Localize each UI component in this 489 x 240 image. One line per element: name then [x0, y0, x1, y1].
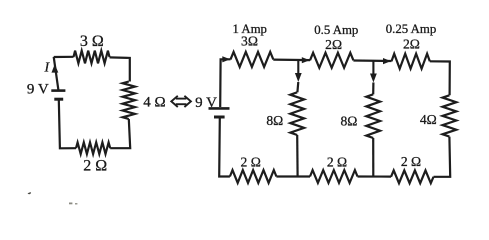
- svg-text:2 Ω: 2 Ω: [241, 154, 261, 169]
- resistor 2-ohm (left circuit, bottom): [76, 142, 110, 154]
- current arrow 0.5 Amp (right-pointing): [302, 57, 310, 63]
- branch wire node A top: [296, 82, 299, 92]
- current arrow 0.25 Amp (right-pointing): [383, 58, 391, 64]
- svg-text:9 V: 9 V: [27, 81, 49, 97]
- svg-text:I: I: [43, 61, 50, 76]
- resistor 2-ohm (right circuit, bottom row 2): [310, 170, 358, 183]
- wire top-right corner (left circuit): [110, 57, 130, 81]
- battery cell 9V (right circuit): [209, 107, 230, 110]
- svg-text:3Ω: 3Ω: [241, 34, 258, 49]
- battery cell 9V (left circuit): [51, 89, 65, 92]
- current arrow I (left circuit): [52, 64, 59, 73]
- svg-text:8Ω: 8Ω: [340, 114, 357, 129]
- scan speck bottom-left: [28, 192, 32, 194]
- resistor 2-ohm (right circuit, bottom row 3): [391, 170, 434, 183]
- wire bottom-left (left circuit): [59, 100, 76, 149]
- svg-text:4 Ω: 4 Ω: [143, 95, 165, 111]
- svg-text:0.25 Amp: 0.25 Amp: [386, 22, 436, 36]
- wire top-right corner (right circuit): [430, 61, 450, 95]
- resistor 4-ohm (left circuit, right side): [123, 82, 135, 120]
- resistor 8-ohm (right circuit, branch 1): [290, 92, 304, 135]
- svg-text:2Ω: 2Ω: [325, 37, 342, 52]
- junction node B down arrow: [372, 61, 374, 75]
- current arrow 1 Amp (right-pointing): [222, 56, 230, 62]
- svg-text:0.5 Amp: 0.5 Amp: [314, 23, 358, 37]
- wire top row to node A: [273, 58, 310, 61]
- junction node A down arrow: [297, 60, 299, 74]
- svg-text:2 Ω: 2 Ω: [327, 154, 347, 169]
- wire bottom row 1-2: [276, 175, 310, 177]
- resistor 4-ohm (right circuit, right branch): [443, 95, 457, 136]
- resistor 3-ohm (right circuit, top row 1): [231, 52, 274, 67]
- wire top-left segment (left circuit): [54, 56, 74, 58]
- resistor 3-ohm (left circuit, top): [74, 51, 110, 64]
- wire right branch bottom: [434, 137, 451, 177]
- scan specks bottom: [69, 203, 72, 205]
- resistor 8-ohm (right circuit, branch 2): [366, 94, 380, 138]
- resistor 2-ohm (right circuit, bottom row 1): [230, 170, 277, 183]
- branch wire node B bottom: [372, 138, 374, 177]
- wire bottom row 2-3: [358, 175, 392, 177]
- equivalence double arrow: [171, 96, 191, 107]
- resistor 2-ohm (right circuit, top row 2): [310, 53, 353, 68]
- svg-text:2Ω: 2Ω: [403, 36, 420, 51]
- branch wire node B top: [372, 83, 374, 95]
- wire left side bottom (right circuit): [219, 118, 230, 176]
- svg-text:8Ω: 8Ω: [266, 113, 283, 128]
- resistor 2-ohm (right circuit, top row 3): [392, 54, 430, 69]
- svg-text:4Ω: 4Ω: [420, 112, 437, 127]
- wire left side upper (left circuit): [54, 57, 59, 90]
- wire left side top (right circuit): [220, 59, 230, 107]
- wire top row to node B: [353, 59, 391, 62]
- wire right-bottom (left circuit): [110, 119, 130, 148]
- svg-text:2 Ω: 2 Ω: [83, 158, 107, 175]
- branch wire node A bottom: [296, 135, 299, 177]
- svg-text:3 Ω: 3 Ω: [80, 33, 104, 50]
- svg-text:2 Ω: 2 Ω: [401, 154, 421, 169]
